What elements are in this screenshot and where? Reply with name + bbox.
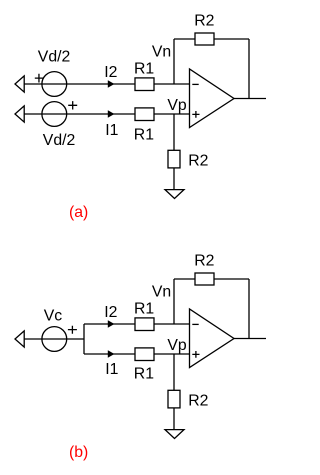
wire xyxy=(214,278,249,280)
svg-text:R2: R2 xyxy=(194,253,214,270)
wire xyxy=(24,83,135,85)
terminal arrow (input b) xyxy=(15,331,24,347)
op-amp (b) inverting pin - xyxy=(192,323,198,325)
svg-text:I2: I2 xyxy=(104,64,117,81)
op-amp (a) non-inverting pin + xyxy=(192,111,199,118)
resistor R1 (a, top) xyxy=(135,78,154,91)
resistor R2 (a, to ground) xyxy=(168,150,180,168)
current arrow I1 (a) xyxy=(108,111,113,117)
wire xyxy=(174,278,195,280)
svg-text:R2: R2 xyxy=(188,153,208,170)
wire xyxy=(174,38,195,40)
wire xyxy=(214,38,249,40)
svg-text:Vd/2: Vd/2 xyxy=(43,132,76,149)
node Vn (a) wire xyxy=(173,39,175,84)
resistor R2 (a, feedback) xyxy=(195,33,214,45)
wire xyxy=(173,168,175,190)
svg-text:Vc: Vc xyxy=(44,307,63,324)
resistor R1 (a, bottom) xyxy=(135,108,154,121)
wire xyxy=(154,323,190,325)
resistor R2 (b, to ground) xyxy=(168,390,180,408)
terminal arrow (input a, top) xyxy=(15,76,24,92)
wire xyxy=(24,113,135,115)
op-amp (a) inverting pin - xyxy=(192,83,198,85)
resistor R1 (b, bottom) xyxy=(135,348,154,361)
resistor R2 (b, feedback) xyxy=(195,273,214,285)
wire xyxy=(24,338,84,340)
svg-text:(a): (a) xyxy=(69,204,88,221)
current arrow I1 (b) xyxy=(108,351,113,357)
wire xyxy=(154,83,190,85)
svg-text:R1: R1 xyxy=(134,127,154,144)
voltage source Vc xyxy=(42,327,67,352)
node Vp (a) wire xyxy=(173,114,175,151)
svg-text:R1: R1 xyxy=(134,61,154,78)
svg-text:Vn: Vn xyxy=(152,283,171,300)
node Vn (b) wire xyxy=(173,279,175,324)
svg-text:I1: I1 xyxy=(105,361,118,378)
voltage source Vd/2 (top) xyxy=(42,72,67,97)
svg-text:R1: R1 xyxy=(134,366,154,383)
node Vp (b) wire xyxy=(173,354,175,391)
wire xyxy=(84,323,135,325)
wire xyxy=(84,353,135,355)
ground (b) xyxy=(165,430,184,439)
polarity + (Vc) xyxy=(68,326,77,334)
wire xyxy=(248,279,250,339)
wire (output a) xyxy=(234,98,266,100)
svg-text:I2: I2 xyxy=(104,304,117,321)
svg-text:Vp: Vp xyxy=(167,97,187,114)
svg-text:R2: R2 xyxy=(188,393,208,410)
svg-text:I1: I1 xyxy=(105,122,118,139)
junction wire (b) xyxy=(83,324,85,354)
resistor R1 (b, top) xyxy=(135,318,154,331)
ground (a) xyxy=(165,190,184,199)
svg-text:Vd/2: Vd/2 xyxy=(38,49,71,66)
current arrow I2 (a) xyxy=(108,81,113,87)
wire (output b) xyxy=(234,338,266,340)
current arrow I2 (b) xyxy=(108,321,113,327)
wire xyxy=(173,408,175,430)
terminal arrow (input a, bottom) xyxy=(15,106,24,122)
svg-text:R1: R1 xyxy=(134,301,154,318)
svg-text:Vn: Vn xyxy=(152,43,171,60)
wire xyxy=(154,113,190,115)
svg-text:Vp: Vp xyxy=(167,337,187,354)
wire xyxy=(248,39,250,99)
svg-text:R2: R2 xyxy=(194,13,214,30)
polarity + (bottom source) xyxy=(68,101,77,109)
op-amp (b) non-inverting pin + xyxy=(192,351,199,358)
voltage source Vd/2 (bottom) xyxy=(42,102,67,127)
op-amp (a) xyxy=(190,69,235,128)
op-amp (b) xyxy=(190,309,235,368)
polarity + (top source) xyxy=(35,74,43,83)
svg-text:(b): (b) xyxy=(69,444,88,461)
wire xyxy=(154,353,190,355)
